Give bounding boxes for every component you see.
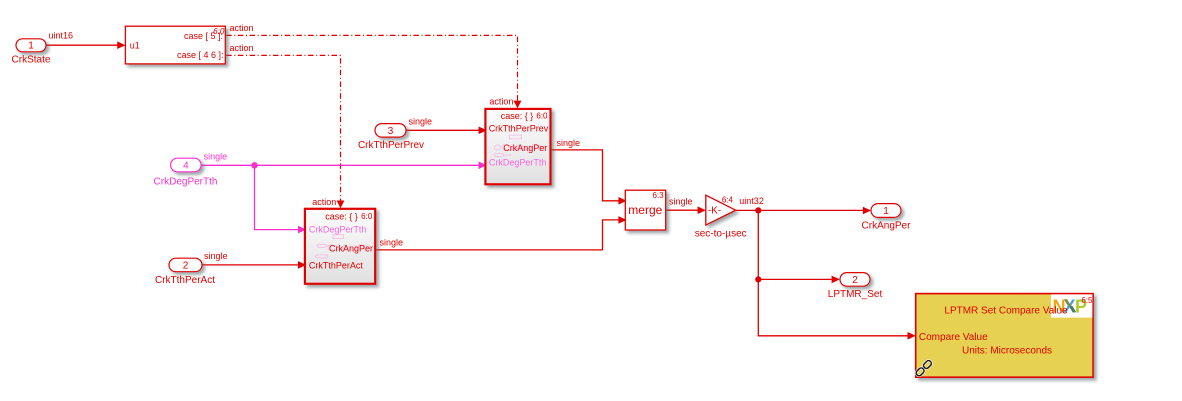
svg-text:CrkTthPerPrev: CrkTthPerPrev (489, 124, 549, 134)
svg-text:uint16: uint16 (49, 31, 74, 41)
svg-text:6:0: 6:0 (536, 112, 548, 121)
svg-text:uint32: uint32 (739, 196, 764, 206)
svg-text:CrkState: CrkState (12, 55, 51, 66)
svg-text:3: 3 (388, 126, 394, 137)
svg-text:CrkAngPer: CrkAngPer (329, 243, 373, 253)
svg-text:merge: merge (628, 203, 662, 217)
svg-text:CrkTthPerPrev: CrkTthPerPrev (358, 140, 424, 151)
svg-text:6:4: 6:4 (722, 195, 734, 204)
svg-text:sec-to-µsec: sec-to-µsec (695, 228, 747, 239)
svg-text:case [ 4 6 ]:: case [ 4 6 ]: (177, 50, 224, 60)
svg-text:6:3: 6:3 (652, 191, 664, 200)
svg-text:CrkDegPerTth: CrkDegPerTth (154, 177, 218, 188)
svg-text:LPTMR_Set: LPTMR_Set (828, 289, 883, 300)
svg-text:CrkAngPer: CrkAngPer (862, 221, 912, 232)
svg-text:single: single (380, 238, 404, 248)
svg-text:-K-: -K- (708, 206, 721, 217)
svg-text:2: 2 (183, 261, 189, 272)
svg-text:single: single (557, 138, 581, 148)
svg-text:action: action (489, 97, 513, 107)
svg-text:single: single (669, 197, 693, 207)
svg-text:1: 1 (28, 41, 34, 52)
svg-text:6:0: 6:0 (361, 212, 373, 221)
svg-text:CrkTthPerAct: CrkTthPerAct (155, 275, 215, 286)
svg-text:4: 4 (183, 161, 189, 172)
svg-text:single: single (204, 152, 228, 162)
svg-text:LPTMR Set Compare Value: LPTMR Set Compare Value (944, 305, 1068, 316)
svg-text:case: { }: case: { } (501, 111, 534, 121)
svg-text:u1: u1 (130, 40, 140, 50)
svg-text:action: action (230, 43, 254, 53)
svg-text:1: 1 (883, 206, 889, 217)
svg-text:6:5: 6:5 (1081, 296, 1093, 305)
svg-text:CrkTthPerAct: CrkTthPerAct (309, 260, 364, 270)
svg-text:Units: Microseconds: Units: Microseconds (962, 346, 1052, 357)
svg-text:action: action (312, 197, 336, 207)
svg-text:Compare Value: Compare Value (919, 332, 988, 343)
svg-text:CrkDegPerTth: CrkDegPerTth (309, 224, 367, 234)
svg-text:2: 2 (852, 275, 858, 286)
svg-text:case: { }: case: { } (325, 212, 358, 222)
svg-text:CrkDegPerTth: CrkDegPerTth (489, 158, 547, 168)
svg-text:6:0: 6:0 (213, 27, 225, 36)
svg-text:single: single (409, 117, 433, 127)
svg-text:single: single (204, 251, 228, 261)
svg-text:CrkAngPer: CrkAngPer (503, 143, 547, 153)
svg-text:action: action (230, 23, 254, 33)
